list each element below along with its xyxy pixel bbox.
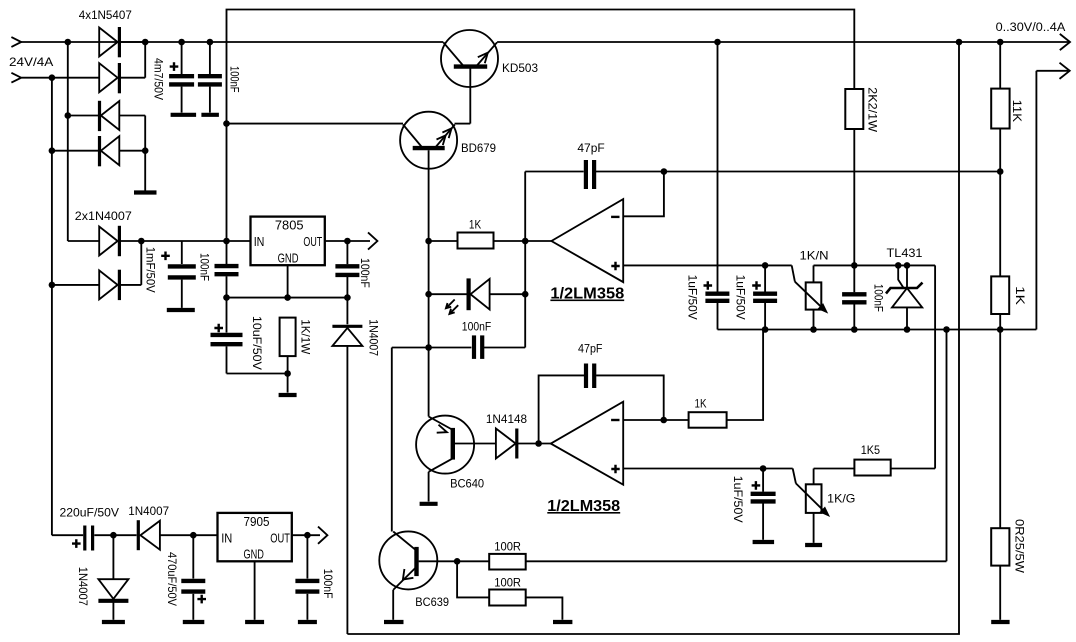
label TL431 <box>887 246 923 260</box>
wire: 7805 ground rail (y=297.6) <box>227 297 348 299</box>
svg-text:1N4148: 1N4148 <box>486 412 528 426</box>
label BD679 <box>461 141 496 155</box>
wire: D5/D6 cathode join, 7805 input row (y=241) <box>119 241 250 285</box>
svg-text:100R: 100R <box>494 540 521 554</box>
label 470uF/50V <box>165 552 179 606</box>
junction dot 220uF/1N4007 node <box>110 532 117 539</box>
potentiometer 1K/N <box>792 265 829 329</box>
svg-text:2x1N4007: 2x1N4007 <box>75 209 132 223</box>
ground of BC640 collector <box>420 502 438 506</box>
svg-text:OUT: OUT <box>270 531 290 546</box>
capacitor 100nF (input bypass) <box>198 42 222 113</box>
capacitor 1uF/50V (on output rail column x=717.5) <box>704 42 730 330</box>
svg-text:100nF: 100nF <box>198 253 212 281</box>
label 1uF/50V (op2 +) <box>731 476 745 523</box>
label 220uF/50V <box>60 506 120 520</box>
wire: op1 non-inverting input row (y=265.4) <box>623 264 792 266</box>
junction dots on raw rail and inputs <box>49 39 214 154</box>
ground of 100R lower <box>553 620 572 624</box>
junction dot op1 + node <box>762 262 769 269</box>
junction dots on BD679 base column <box>425 238 432 351</box>
resistor 100R (lower) <box>457 561 562 620</box>
label 4m7/50V <box>152 58 166 100</box>
label 1N4007 (clamp down) <box>76 567 90 606</box>
diode D3 (1N5407, mirrored) <box>100 101 120 131</box>
svg-text:470uF/50V: 470uF/50V <box>165 552 179 606</box>
resistor 0R25/5W <box>991 330 1009 620</box>
LED (optocoupler-style indicator) <box>429 278 526 314</box>
junction dot x226.5/y123.6 <box>223 120 230 127</box>
resistor 1K (feedback divider) <box>991 172 1009 330</box>
svg-text:0..30V/0..4A: 0..30V/0..4A <box>996 22 1066 34</box>
junction dots on TL431 reference net <box>851 262 910 269</box>
label 1K (op2 feedback) <box>695 397 707 411</box>
svg-text:OUT: OUT <box>303 234 322 249</box>
label 1K (feedback divider) <box>1013 286 1027 305</box>
svg-text:1N4007: 1N4007 <box>76 567 90 606</box>
resistor 1K (op1 input) <box>429 233 526 249</box>
svg-text:2K2/1W: 2K2/1W <box>866 87 880 133</box>
output arrow of 7805 <box>368 232 377 249</box>
wire: 7905 GND lead <box>254 561 256 620</box>
wire: +24V raw rail (top, y=42) <box>22 41 1069 43</box>
svg-text:1K: 1K <box>695 397 707 411</box>
capacitor 100nF (across LED row) <box>392 335 525 359</box>
junction dots on 7805 ground rail <box>223 294 351 301</box>
junction dot 7905 OUT <box>304 532 311 539</box>
ground of 1K/1W <box>279 393 297 397</box>
svg-text:7805: 7805 <box>275 218 304 233</box>
wire: op2 inverting input <box>623 419 688 421</box>
capacitor 100nF (7805 input) <box>215 266 239 298</box>
svg-text:1N4007: 1N4007 <box>367 319 381 356</box>
output arrow of 7905 <box>318 527 327 544</box>
wire: 10uF bottom to 1K/1W bottom (y=373.5) <box>227 373 288 375</box>
svg-text:1/2LM358: 1/2LM358 <box>550 286 624 303</box>
svg-text:KD503: KD503 <box>502 61 538 75</box>
label 1N4007 (clamp) <box>367 319 381 356</box>
label 100nF (7805 input) <box>198 253 212 281</box>
resistor 11K <box>991 42 1009 172</box>
label 100nF (TL431) <box>872 284 886 312</box>
label BC639 <box>415 595 449 609</box>
label 1uF/50V (first) <box>685 275 699 320</box>
wire: op1 inverting input from feedback node <box>623 172 664 217</box>
label 1/2LM358 (op1) <box>550 286 624 303</box>
label 47pF (op1) <box>577 141 604 155</box>
junction dots on output rail <box>714 39 1003 46</box>
ground of 1mF/50V <box>167 308 195 312</box>
svg-text:100nF: 100nF <box>872 284 886 312</box>
diode 1N4007 (series, pointing left) <box>138 520 217 550</box>
capacitor 47pF (op1 feedback) <box>525 160 1000 189</box>
output terminal arrow 1 (positive) <box>1060 34 1070 50</box>
label 1K (op1 input) <box>469 217 481 231</box>
ground of 1K/G <box>805 543 822 547</box>
transistor Q4 BC639 <box>379 531 457 619</box>
diode D4 (1N5407, mirrored) <box>100 136 120 166</box>
svg-text:BD679: BD679 <box>461 141 496 155</box>
ground of 0R25/5W <box>991 620 1009 624</box>
svg-text:100R: 100R <box>494 576 521 590</box>
svg-text:47pF: 47pF <box>577 141 604 155</box>
capacitor 220uF/50V <box>72 526 137 551</box>
diode 1N4148 <box>496 429 551 459</box>
wire: D3 cathode to x67.8 <box>68 115 100 117</box>
label 1K/G <box>827 491 855 505</box>
capacitor 100nF (7805 output) <box>335 241 359 298</box>
wire: output rail riser and bottom return (x=959, y=634) <box>347 42 959 634</box>
resistor 100R (upper) <box>457 554 946 570</box>
wire: vertical from input b (x=51.9) down to 220uF section <box>51 78 53 536</box>
label 1K5 <box>861 443 881 457</box>
label 100nF (7905 output) <box>321 569 335 599</box>
label 100R (lower) <box>494 576 521 590</box>
svg-text:1K5: 1K5 <box>861 443 881 457</box>
svg-text:IN: IN <box>254 234 265 249</box>
svg-text:1K/G: 1K/G <box>827 491 855 505</box>
wire: 7805 OUT to arrow <box>325 240 370 242</box>
label 0..30V/0..4A <box>996 22 1066 34</box>
potentiometer 1K/G <box>793 469 855 543</box>
svg-text:24V/4A: 24V/4A <box>9 55 53 69</box>
label 100nF (input bypass) <box>227 66 241 93</box>
wire: vertical x391.8 down to BC639 collector <box>391 348 393 532</box>
wire: D4 cathode to x51.9 <box>52 150 100 152</box>
junction dots at 7805 input net <box>49 238 230 289</box>
svg-text:1K: 1K <box>1013 286 1027 305</box>
wire: D6 anode from x51.9 <box>52 284 99 286</box>
wire: AC input line b (y=77.7) <box>22 77 99 79</box>
input terminal arrow 1 (24V AC line a) <box>11 37 21 47</box>
diode 1N4007 (clamp, pointing down) <box>98 535 128 620</box>
svg-text:1K/1W: 1K/1W <box>298 319 312 355</box>
diode D2 (1N5407) <box>99 63 119 93</box>
svg-text:1K/N: 1K/N <box>800 249 829 263</box>
label 2K2/1W <box>866 87 880 133</box>
label 0R25/5W <box>1013 519 1027 574</box>
op-amp U1a 1/2LM358 <box>525 199 623 282</box>
label 1N4007 (series) <box>128 504 169 518</box>
input terminal arrow 2 (24V AC line b) <box>11 73 21 83</box>
label KD503 <box>502 61 538 75</box>
junction dots on x525.2 <box>522 238 529 298</box>
ground of input 100nF <box>201 113 219 117</box>
transistor Q2 BD679 <box>400 112 470 417</box>
capacitor 47pF (op2 feedback) <box>539 364 664 444</box>
wire: x51.9 corner to 220uF <box>52 534 83 536</box>
label 1K/1W <box>298 319 312 355</box>
capacitor 1uF/50V (on op1 + node x=765.1) <box>752 265 777 329</box>
wire: TL431 reference net (y=265.4) <box>814 264 936 266</box>
label 1/2LM358 (op2) <box>547 498 620 515</box>
svg-text:1uF/50V: 1uF/50V <box>731 476 745 523</box>
wire: D3 anode/D4 anode join to ground <box>119 116 145 191</box>
wire: 7905 OUT to arrow <box>292 534 320 536</box>
ground of 7905 <box>245 620 264 624</box>
svg-text:100nF: 100nF <box>462 320 491 334</box>
svg-text:4m7/50V: 4m7/50V <box>152 58 166 100</box>
ground of 7905 100nF <box>298 620 317 624</box>
resistor 1K5 <box>854 460 935 476</box>
op-amp U1b 1/2LM358 <box>551 402 623 485</box>
junction dot op2 + node <box>760 465 767 472</box>
diode D1 (1N5407) <box>99 27 119 57</box>
wire: pre-regulator net top line (y=9.5) with x=226.5 drop <box>227 10 855 265</box>
svg-text:0R25/5W: 0R25/5W <box>1013 519 1027 574</box>
junction dot 1K/1W bottom <box>284 370 291 377</box>
diode D5 (1N4007) <box>99 226 119 256</box>
junction dot 7905 IN node <box>190 532 197 539</box>
capacitor 470uF/50V <box>181 535 206 620</box>
label 24V/4A <box>9 55 53 69</box>
svg-text:BC640: BC640 <box>450 476 484 490</box>
svg-text:1mF/50V: 1mF/50V <box>144 247 158 293</box>
label 1N4148 <box>486 412 528 426</box>
ground of 1uF (op2 +) <box>753 540 775 544</box>
junction dots on feedback line <box>661 168 1004 175</box>
svg-text:1uF/50V: 1uF/50V <box>734 275 748 320</box>
wire: output return column (x=1036.4) <box>1035 71 1037 330</box>
svg-text:BC639: BC639 <box>415 595 449 609</box>
svg-text:1N4007: 1N4007 <box>128 504 169 518</box>
svg-text:7905: 7905 <box>244 514 270 529</box>
svg-text:220uF/50V: 220uF/50V <box>60 506 120 520</box>
shunt reference U3 TL431 <box>886 265 923 329</box>
wire: 7805 GND lead <box>287 265 289 297</box>
svg-text:47pF: 47pF <box>578 342 603 356</box>
wire: vertical from input a (x=67.8) down to D5 <box>67 42 69 241</box>
wire: op2 non-inverting row (y=468.5) <box>623 468 793 470</box>
regulator U4 7905 <box>218 513 292 562</box>
ground of 4m7/50V <box>171 113 197 117</box>
svg-text:IN: IN <box>221 531 232 546</box>
capacitor 1mF/50V <box>161 241 196 308</box>
svg-text:10uF/50V: 10uF/50V <box>250 316 264 370</box>
svg-text:GND: GND <box>244 547 264 562</box>
resistor 1K (op2 feedback) <box>689 330 764 428</box>
junction dot 7805 OUT <box>344 238 351 245</box>
wire: D5 anode from x67.8 <box>68 240 99 242</box>
resistor 2K2/1W <box>845 89 863 292</box>
wire: BD679 collector line (y=123.6) <box>227 123 404 125</box>
svg-text:TL431: TL431 <box>887 246 923 260</box>
label 100nF (LED row) <box>462 320 491 334</box>
junction dots on sense rail <box>762 326 1004 333</box>
label 1mF/50V <box>144 247 158 293</box>
wire: sense rail (y=329.5) <box>718 329 1037 331</box>
label 1K/N <box>800 249 829 263</box>
junction dot BC639 base <box>454 558 461 565</box>
label BC640 <box>450 476 484 490</box>
svg-text:GND: GND <box>278 251 299 266</box>
svg-text:100nF: 100nF <box>321 569 335 599</box>
ground of BC639 emitter <box>384 620 404 624</box>
regulator U2 7805 <box>251 217 325 266</box>
wire: D1/D2 cathode join to rail <box>119 42 145 78</box>
label 11K <box>1010 100 1024 122</box>
transistor Q3 BC640 <box>416 416 496 502</box>
junction dot op2 output node <box>535 440 542 447</box>
label 100nF (7805 output) <box>358 258 372 288</box>
capacitor 100nF (7905 output) <box>295 535 319 620</box>
ground of 1N4007 clamp <box>102 620 125 624</box>
ground of bridge <box>134 190 157 194</box>
label 100R (upper) <box>494 540 521 554</box>
capacitor 1uF/50V (op2 +) <box>751 469 776 540</box>
svg-text:1uF/50V: 1uF/50V <box>685 275 699 320</box>
svg-text:11K: 11K <box>1010 100 1024 122</box>
resistor 1K/1W <box>280 318 296 393</box>
svg-text:1/2LM358: 1/2LM358 <box>547 498 620 515</box>
ground of 470uF <box>183 620 205 624</box>
capacitor 4m7/50V <box>169 42 194 113</box>
svg-text:100nF: 100nF <box>358 258 372 288</box>
transistor Q1 KD503 <box>441 30 498 124</box>
output terminal arrow 2 (return) <box>1036 63 1069 79</box>
label 1uF/50V (second) <box>734 275 748 320</box>
diode D6 (1N4007) <box>99 270 119 300</box>
label 10uF/50V <box>250 316 264 370</box>
capacitor 100nF (TL431) <box>842 294 866 329</box>
svg-text:4x1N5407: 4x1N5407 <box>79 8 132 22</box>
junction dot op2 inverting node <box>660 417 667 424</box>
wire: TL431 net to 1K5 (x=935.1) <box>934 265 936 468</box>
svg-text:100nF: 100nF <box>227 66 241 93</box>
wire: vertical x525.2 (op1 output node) <box>524 172 526 348</box>
label 2x1N4007 <box>75 209 132 223</box>
wire: 100R upper to sense rail (x=946.5) <box>946 330 948 562</box>
diode 1N4007 (7805 output clamp, pointing up) <box>332 298 362 634</box>
svg-text:1K: 1K <box>469 217 481 231</box>
capacitor 10uF/50V <box>211 298 243 374</box>
label 47pF (op2) <box>578 342 603 356</box>
label 4x1N5407 <box>79 8 132 22</box>
